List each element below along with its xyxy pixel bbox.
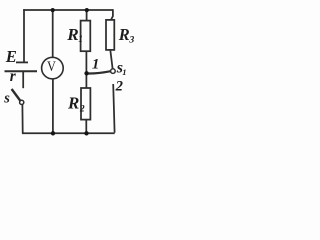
svg-text:1: 1 xyxy=(92,57,100,73)
wire bottom rail xyxy=(22,132,115,134)
switch s hinge circle xyxy=(20,100,24,104)
svg-text:2: 2 xyxy=(115,78,123,94)
junction dot bottom voltmeter xyxy=(51,131,55,135)
wire voltmeter bottom xyxy=(52,79,54,133)
svg-text:R: R xyxy=(66,25,78,44)
switch s1 lever (in position 1) xyxy=(87,71,110,73)
wire top-right corner to R3 xyxy=(111,9,113,20)
svg-text:3: 3 xyxy=(128,35,134,46)
wire voltmeter branch top xyxy=(52,10,54,57)
svg-text:V: V xyxy=(47,58,56,74)
wire R3 to switch s1 pivot xyxy=(110,50,112,69)
svg-text:E: E xyxy=(5,47,17,66)
junction node 1 dot (s1 contact) xyxy=(84,71,88,75)
junction dot top R1 xyxy=(85,8,89,12)
voltmeter V circle xyxy=(42,57,64,79)
wire R2 to bottom rail xyxy=(85,120,87,134)
wire left vertical (battery branch) xyxy=(23,9,25,62)
junction dot top voltmeter xyxy=(51,8,55,12)
wire top rail xyxy=(23,9,113,11)
resistor R3 body xyxy=(106,20,114,50)
svg-text:1: 1 xyxy=(78,35,83,45)
resistor R1 body xyxy=(81,21,91,52)
wire R1 to node 1 to R2 xyxy=(85,51,87,88)
switch s1 pivot circle xyxy=(111,69,116,74)
svg-text:2: 2 xyxy=(79,104,85,114)
battery E short plate xyxy=(16,61,28,63)
svg-text:1: 1 xyxy=(122,67,126,77)
svg-text:R: R xyxy=(118,25,130,44)
svg-text:R: R xyxy=(67,94,79,113)
battery E long plate (with r internal resistance bar) xyxy=(5,70,38,72)
wire R1 branch top xyxy=(86,10,88,21)
wire switch to bottom-left corner xyxy=(21,104,23,132)
wire battery to switch s xyxy=(22,71,24,88)
switch s blade (open) xyxy=(12,89,21,101)
junction dot bottom R2 xyxy=(84,131,88,135)
svg-text:r: r xyxy=(10,68,17,85)
svg-text:s: s xyxy=(3,91,10,107)
wire contact 2 stub down to bottom rail xyxy=(113,84,114,133)
resistor R2 body xyxy=(81,88,90,120)
